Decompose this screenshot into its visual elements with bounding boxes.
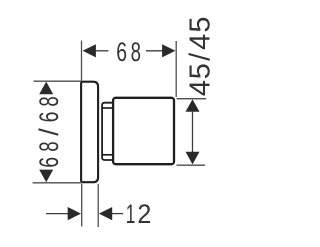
dim 68: right arrow (146, 50, 163, 52)
right dim 45/45: shaft (192, 111, 194, 154)
svg-text:4: 4 (185, 34, 217, 50)
svg-text:1: 1 (126, 198, 136, 229)
sleeve top cap line (103, 107, 113, 109)
extension line: top-left vertical (above plate) (81, 41, 83, 82)
right dim 45/45: top extension line (177, 98, 207, 100)
svg-text:8: 8 (34, 96, 64, 106)
sleeve (102, 103, 113, 160)
left dim 68/68: top arrow (up) (39, 82, 53, 95)
extension line: top-right vertical (above handle) (175, 41, 177, 97)
right dim 45/45: bottom extension line (177, 164, 206, 166)
bottom dim 12: right extension line (below plate) (97, 184, 99, 227)
bottom dim 12: text (126, 198, 152, 229)
svg-text:/: / (34, 128, 64, 136)
svg-text:5: 5 (185, 17, 217, 33)
dim 68: text (116, 36, 141, 66)
sleeve bottom cap line (103, 154, 113, 156)
bottom dim 12: left arrow (points right) (46, 213, 68, 215)
svg-text:2: 2 (137, 198, 151, 229)
left dim 68/68: bottom extension line (33, 182, 83, 184)
left dim 68/68: bottom arrow (down) (39, 170, 53, 183)
right dim 45/45: rotated text (185, 17, 217, 97)
svg-text:6: 6 (116, 37, 127, 67)
escutcheon plate (side view) (81, 82, 98, 183)
left dim 68/68: top extension line (34, 80, 82, 82)
right dim 45/45: top arrow (up) (186, 99, 200, 112)
dim 68: left arrow (83, 44, 96, 57)
svg-text:6: 6 (34, 157, 64, 168)
svg-text:/: / (185, 52, 217, 61)
svg-text:8: 8 (34, 141, 64, 151)
bottom dim 12: right arrow (points left) (99, 207, 112, 220)
svg-text:5: 5 (185, 63, 217, 79)
right dim 45/45: bottom arrow (down) (186, 152, 200, 165)
left dim 68/68: rotated text (34, 96, 64, 167)
handle (side view) (113, 98, 174, 164)
svg-text:8: 8 (131, 36, 141, 66)
svg-text:4: 4 (185, 80, 217, 96)
bottom dim 12: left extension line (below plate) (81, 184, 83, 227)
svg-text:6: 6 (34, 112, 64, 123)
